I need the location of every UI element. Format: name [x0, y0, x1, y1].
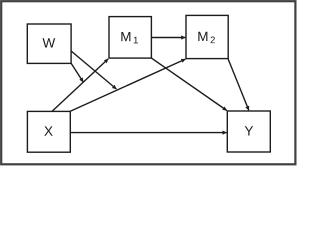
outer frame: [1, 1, 295, 164]
node X box: [27, 111, 70, 152]
wire arrow W moderating X-M1 path: [71, 63, 83, 82]
wire arrow M2 to Y: [228, 59, 249, 111]
node Y box: [227, 111, 270, 152]
node M2 box: [186, 15, 228, 58]
wire arrow X to M1: [52, 59, 108, 112]
wire arrow M1 to Y: [151, 58, 226, 110]
node W box: [27, 24, 71, 63]
wire arrow X to M2: [70, 59, 185, 111]
wire arrow W moderating X-M2 path: [71, 51, 116, 89]
node M1 box: [109, 17, 151, 59]
wire arrow M1 to M2: [151, 37, 185, 39]
wire arrow X to Y: [70, 132, 226, 134]
